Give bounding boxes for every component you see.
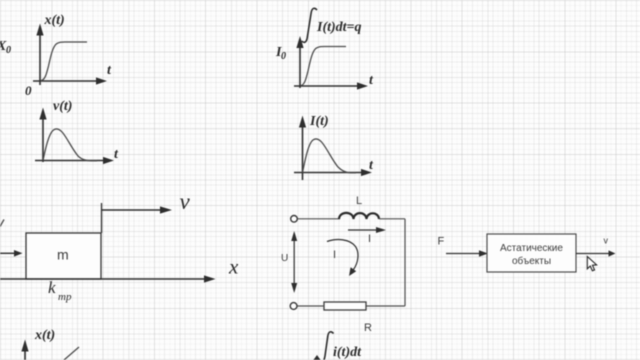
label 0 (graph1 origin)	[25, 83, 32, 98]
label m	[57, 247, 69, 263]
graph3 y-axis	[296, 36, 303, 88]
integral sign (bottom)	[324, 332, 334, 360]
partial label stroke at left edge	[0, 220, 4, 227]
label v (block output)	[604, 236, 609, 246]
block text	[500, 243, 563, 267]
svg-text:I: I	[368, 233, 371, 245]
label F	[438, 236, 445, 248]
svg-text:t: t	[369, 158, 374, 173]
label U	[281, 253, 288, 264]
svg-text:F: F	[438, 236, 445, 248]
resistor R	[324, 302, 366, 310]
current arrow I	[348, 227, 386, 233]
svg-text:v: v	[180, 189, 191, 214]
svg-text:i(t)dt: i(t)dt	[333, 345, 362, 360]
mass block m	[26, 233, 101, 279]
velocity pole line	[101, 203, 103, 233]
label x(t)	[44, 13, 65, 28]
svg-text:t: t	[114, 147, 119, 162]
svg-text:I: I	[333, 249, 336, 261]
svg-text:U: U	[281, 253, 288, 264]
mouse cursor	[587, 257, 596, 271]
node: bottom terminal	[290, 303, 297, 310]
label I (loop current)	[333, 249, 336, 261]
svg-text:Астатические: Астатические	[500, 243, 563, 254]
label i(t)dt	[333, 345, 362, 360]
node: top terminal	[291, 216, 298, 223]
svg-text:v: v	[604, 236, 609, 246]
ground x-axis line	[0, 275, 216, 282]
label t (graph4)	[369, 158, 374, 173]
label I0	[275, 45, 286, 62]
wire bottom right	[366, 305, 405, 307]
block: astatic objects	[487, 234, 576, 272]
svg-text:v(t): v(t)	[53, 99, 72, 114]
label L	[356, 195, 362, 207]
integral sign (graph3 title)	[302, 8, 317, 42]
graph2 y-axis	[39, 108, 46, 163]
svg-text:m: m	[57, 247, 69, 263]
wire top right	[379, 218, 405, 220]
graph5 y-axis (partial)	[21, 340, 28, 360]
svg-text:t: t	[107, 63, 112, 78]
label I(t)dt=q	[316, 20, 362, 35]
graph3 x-axis	[294, 82, 368, 89]
curved loop-current arrow	[327, 240, 358, 276]
label t (graph2)	[114, 147, 119, 162]
force arrow into mass	[0, 250, 23, 257]
svg-text:R: R	[364, 322, 372, 334]
label v (velocity)	[180, 189, 191, 214]
label t (graph3)	[369, 73, 374, 88]
label R	[364, 322, 372, 334]
svg-text:0: 0	[6, 45, 11, 56]
graph4 y-axis	[299, 116, 306, 181]
label I(t)	[309, 114, 329, 129]
svg-text:x: x	[228, 255, 239, 279]
graph4 x-axis	[294, 169, 372, 176]
label k_tr	[48, 278, 72, 303]
svg-text:k: k	[48, 278, 56, 297]
wire right side	[404, 219, 406, 306]
svg-text:x(t): x(t)	[44, 13, 65, 28]
label t (graph1)	[107, 63, 112, 78]
ramp line (partial)	[64, 347, 79, 360]
wire top left	[297, 218, 340, 220]
svg-text:0: 0	[281, 51, 286, 62]
svg-text:I(t): I(t)	[309, 114, 329, 129]
label x (ground axis)	[228, 255, 239, 279]
svg-text:I(t)dt=q: I(t)dt=q	[316, 20, 362, 35]
graph6 y-axis tip (partial)	[313, 355, 320, 360]
velocity arrow v	[102, 206, 173, 213]
svg-text:0: 0	[25, 83, 32, 98]
label I (top current)	[368, 233, 371, 245]
svg-text:x(t): x(t)	[34, 328, 55, 343]
graph1 x-axis	[33, 77, 107, 84]
label v(t)	[53, 99, 72, 114]
svg-text:L: L	[356, 195, 362, 207]
label x(t) (bottom)	[34, 328, 55, 343]
graph1 y-axis	[36, 24, 43, 86]
svg-text:t: t	[369, 73, 374, 88]
graph2 x-axis	[35, 157, 114, 164]
voltage arrow U	[291, 231, 297, 293]
inductor L	[339, 213, 379, 219]
svg-text:объекты: объекты	[512, 255, 551, 267]
output arrow v	[576, 250, 616, 256]
label X0	[0, 39, 11, 56]
graph1 step-response curve	[41, 42, 87, 81]
graph4 current impulse curve	[303, 139, 357, 173]
wire bottom left	[297, 305, 324, 307]
svg-text:тр: тр	[58, 291, 72, 303]
graph3 charge curve	[301, 46, 346, 85]
graph2 impulse curve	[43, 129, 97, 161]
input arrow F	[446, 250, 488, 257]
